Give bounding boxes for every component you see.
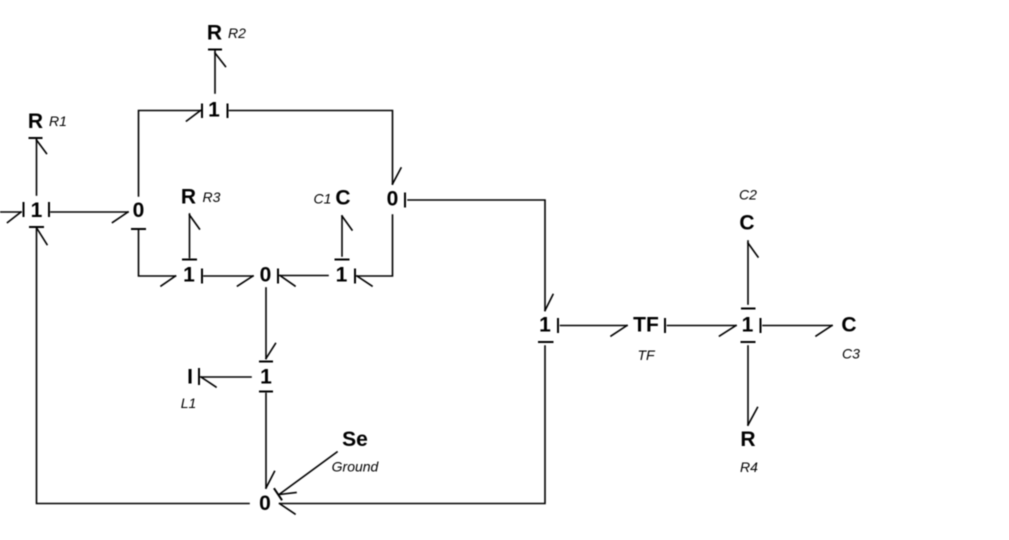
- svg-text:R: R: [28, 110, 43, 133]
- resistor R1 bond: left 1-junction up to R: [30, 138, 47, 195]
- svg-text:TF: TF: [637, 347, 656, 363]
- svg-text:1: 1: [183, 264, 195, 287]
- svg-text:R2: R2: [228, 25, 246, 41]
- svg-text:R: R: [181, 186, 196, 209]
- wire bond B3: bottom 0-junction loop up into left 1-junction: [30, 227, 249, 504]
- svg-text:TF: TF: [633, 314, 659, 337]
- wire bond B21: middle 0-junction down into I 1-junction: [260, 288, 276, 362]
- svg-text:C3: C3: [842, 346, 860, 362]
- svg-text:0: 0: [259, 492, 271, 515]
- svg-text:1: 1: [742, 314, 754, 337]
- wire bond B8: left 0-junction down and right into middle 1-junction: [132, 229, 176, 286]
- wire bond B20: TF 1-junction down and left into bottom 0-junction: [280, 342, 553, 514]
- wire bond B16: transformer TF into right 1-junction: [665, 319, 736, 336]
- wire bond B14: right 0-junction right and down into TF 1-junction: [405, 194, 553, 311]
- svg-text:0: 0: [133, 199, 145, 222]
- svg-text:1: 1: [208, 99, 220, 122]
- svg-text:1: 1: [260, 366, 272, 389]
- svg-text:0: 0: [260, 264, 272, 287]
- svg-text:R1: R1: [49, 113, 67, 129]
- svg-text:C: C: [841, 314, 856, 337]
- resistor R4 bond: right 1-junction down to R: [742, 342, 758, 425]
- wire bond B23: I 1-junction down into bottom 0-junction: [260, 392, 275, 489]
- wire bond B1: external input into left 1-junction: [0, 203, 24, 223]
- svg-text:R: R: [207, 22, 222, 45]
- svg-text:C2: C2: [739, 187, 757, 203]
- svg-text:1: 1: [539, 314, 551, 337]
- inductor L1 bond: I 1-junction left to I: [199, 369, 251, 387]
- svg-text:R3: R3: [203, 189, 221, 205]
- wire bond B10: middle 1-junction into middle 0-junction: [202, 270, 253, 287]
- resistor R3 bond: middle 1-junction up to R: [183, 214, 200, 260]
- svg-text:C1: C1: [314, 191, 332, 207]
- svg-text:Ground: Ground: [332, 459, 380, 475]
- source Se Ground bond: Se down-left into bottom 0-junction: [275, 452, 338, 500]
- wire bond B4: left 1-junction to left 0-junction: [49, 203, 128, 223]
- wire bond B5: left 0-junction up and right into top 1-junction: [139, 105, 203, 197]
- svg-text:0: 0: [387, 188, 399, 211]
- svg-text:C: C: [335, 187, 350, 210]
- svg-text:C: C: [739, 212, 754, 235]
- svg-text:I: I: [187, 366, 193, 389]
- wire bond B11: C1 1-junction into middle 0-junction: [278, 270, 328, 287]
- capacitor C1 bond: C1 1-junction up to C: [336, 216, 353, 260]
- svg-text:R: R: [740, 428, 755, 451]
- svg-text:1: 1: [31, 199, 43, 222]
- svg-text:L1: L1: [181, 395, 197, 411]
- wire bond B7: top 1-junction right and down into right 0-junction: [228, 105, 402, 185]
- resistor R2 bond: top 1-junction up to R: [209, 50, 226, 94]
- svg-text:1: 1: [336, 264, 348, 287]
- svg-text:Se: Se: [342, 428, 368, 451]
- wire bond B15: TF 1-junction into transformer TF: [558, 319, 627, 336]
- svg-text:R4: R4: [740, 459, 758, 475]
- wire bond B13: right 0-junction down and left into C1 1-junction: [355, 215, 393, 286]
- capacitor C2 bond: right 1-junction up to C: [742, 241, 758, 309]
- capacitor C3 bond: right 1-junction right to C: [761, 319, 833, 336]
